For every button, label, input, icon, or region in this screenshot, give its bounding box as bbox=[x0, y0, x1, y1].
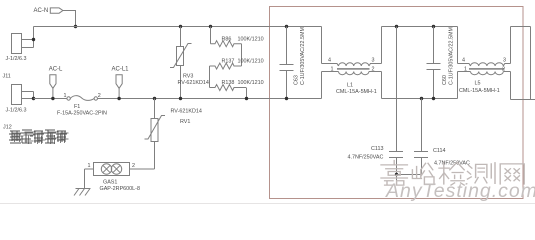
resistor R137 bbox=[210, 59, 264, 69]
capacitor C60 bbox=[427, 25, 455, 100]
node N-rail junction at AC-N drop bbox=[74, 25, 77, 28]
svg-text:CML-15A-5MH-1: CML-15A-5MH-1 bbox=[336, 89, 377, 95]
chassis ground bbox=[74, 189, 91, 196]
node AC-N flag bbox=[34, 8, 63, 14]
node AC-L flag bbox=[49, 67, 63, 101]
connector J-1/2/6.3 (neutral input) bbox=[6, 27, 36, 63]
svg-text:AnyTesting.com: AnyTesting.com bbox=[385, 180, 535, 202]
svg-text:J12: J12 bbox=[3, 125, 12, 131]
svg-text:RV-621KD14: RV-621KD14 bbox=[178, 80, 209, 86]
svg-text:C114: C114 bbox=[433, 148, 446, 154]
svg-text:R86: R86 bbox=[222, 37, 232, 43]
wire L rail mid segment bbox=[382, 98, 458, 100]
svg-text:L1: L1 bbox=[347, 83, 353, 89]
svg-text:2: 2 bbox=[372, 66, 375, 72]
svg-text:1: 1 bbox=[64, 93, 67, 99]
wire R138 to L rail bbox=[246, 88, 248, 99]
svg-text:2: 2 bbox=[502, 66, 505, 72]
common-mode choke L1 bbox=[322, 27, 382, 99]
capacitor C63 bbox=[280, 25, 307, 100]
svg-text:J-1/2/6.3: J-1/2/6.3 bbox=[6, 56, 27, 62]
wire N rail left segment bbox=[34, 26, 322, 28]
svg-text:100K/1210: 100K/1210 bbox=[238, 37, 264, 43]
wire N rail right segment bbox=[511, 26, 531, 28]
wire L rail right segment bbox=[511, 99, 535, 101]
red highlight box bbox=[270, 7, 524, 199]
node AC-L1 flag bbox=[112, 67, 130, 101]
svg-text:100K/1210: 100K/1210 bbox=[238, 59, 264, 65]
svg-text:100K/1210: 100K/1210 bbox=[238, 80, 264, 86]
svg-text:1: 1 bbox=[331, 66, 334, 72]
connector J11 bbox=[3, 74, 36, 114]
svg-text:C-1UF/305VAC/22.5MM: C-1UF/305VAC/22.5MM bbox=[300, 26, 306, 85]
svg-text:AC-L1: AC-L1 bbox=[112, 67, 130, 73]
svg-text:C60: C60 bbox=[442, 75, 448, 85]
svg-text:4: 4 bbox=[462, 58, 465, 64]
svg-text:1: 1 bbox=[88, 163, 91, 169]
wire R137 to R138 bbox=[209, 66, 211, 88]
svg-text:3: 3 bbox=[503, 58, 506, 64]
watermark dark jumble (fake CJK) bbox=[9, 130, 69, 144]
resistor R86 bbox=[209, 25, 264, 47]
svg-text:R137: R137 bbox=[222, 59, 235, 65]
varistor RV3 bbox=[170, 25, 209, 100]
resistor R138 bbox=[210, 80, 264, 91]
wire right edge vertical bbox=[530, 27, 532, 100]
svg-text:2: 2 bbox=[132, 163, 135, 169]
bottom faint page line bbox=[0, 203, 535, 205]
svg-text:2: 2 bbox=[98, 93, 101, 99]
svg-text:RV3: RV3 bbox=[183, 74, 193, 80]
svg-text:F1: F1 bbox=[74, 104, 80, 110]
svg-text:J11: J11 bbox=[3, 74, 11, 80]
svg-text:CML-15A-5MH-1: CML-15A-5MH-1 bbox=[459, 88, 500, 94]
svg-text:C113: C113 bbox=[371, 146, 384, 152]
svg-text:F-15A-250VAC-2PIN: F-15A-250VAC-2PIN bbox=[57, 111, 107, 117]
fuse F1 bbox=[57, 93, 107, 117]
earth link C113-C114 bbox=[395, 173, 398, 176]
wire N rail mid segment bbox=[382, 26, 458, 28]
svg-text:3: 3 bbox=[372, 58, 375, 64]
watermark big CJK (fake strokes) bbox=[381, 161, 524, 186]
wire L rail left segment bbox=[34, 98, 69, 100]
common-mode choke L5 bbox=[458, 27, 511, 100]
svg-text:C63: C63 bbox=[294, 75, 300, 85]
capacitor C114 bbox=[414, 97, 470, 175]
svg-text:1: 1 bbox=[464, 66, 467, 72]
svg-text:RV1: RV1 bbox=[180, 119, 190, 125]
varistor RV1 bbox=[130, 97, 202, 169]
svg-text:R138: R138 bbox=[222, 80, 235, 86]
wire from AC-N flag to N rail bbox=[63, 11, 76, 27]
wire R86 to R137 bbox=[241, 44, 243, 66]
gas discharge tube GAS1 bbox=[85, 163, 140, 193]
svg-text:AC-N: AC-N bbox=[34, 8, 49, 14]
svg-text:J-1/2/6.3: J-1/2/6.3 bbox=[6, 108, 27, 114]
node L-rail junction at resistor chain bbox=[245, 97, 248, 100]
svg-text:AC-L: AC-L bbox=[49, 67, 63, 73]
svg-text:RV-621KD14: RV-621KD14 bbox=[171, 109, 202, 115]
svg-text:4.7NF/250VAC: 4.7NF/250VAC bbox=[434, 161, 470, 167]
svg-text:4: 4 bbox=[328, 58, 331, 64]
svg-text:L5: L5 bbox=[475, 81, 481, 87]
svg-text:GAP-2RP600L-8: GAP-2RP600L-8 bbox=[100, 186, 140, 192]
svg-text:C-1UF/305VAC/22.5MM: C-1UF/305VAC/22.5MM bbox=[449, 26, 455, 85]
capacitor C113 bbox=[348, 25, 404, 175]
svg-text:4.7NF/250VAC: 4.7NF/250VAC bbox=[348, 155, 384, 161]
svg-text:GAS1: GAS1 bbox=[103, 180, 117, 186]
